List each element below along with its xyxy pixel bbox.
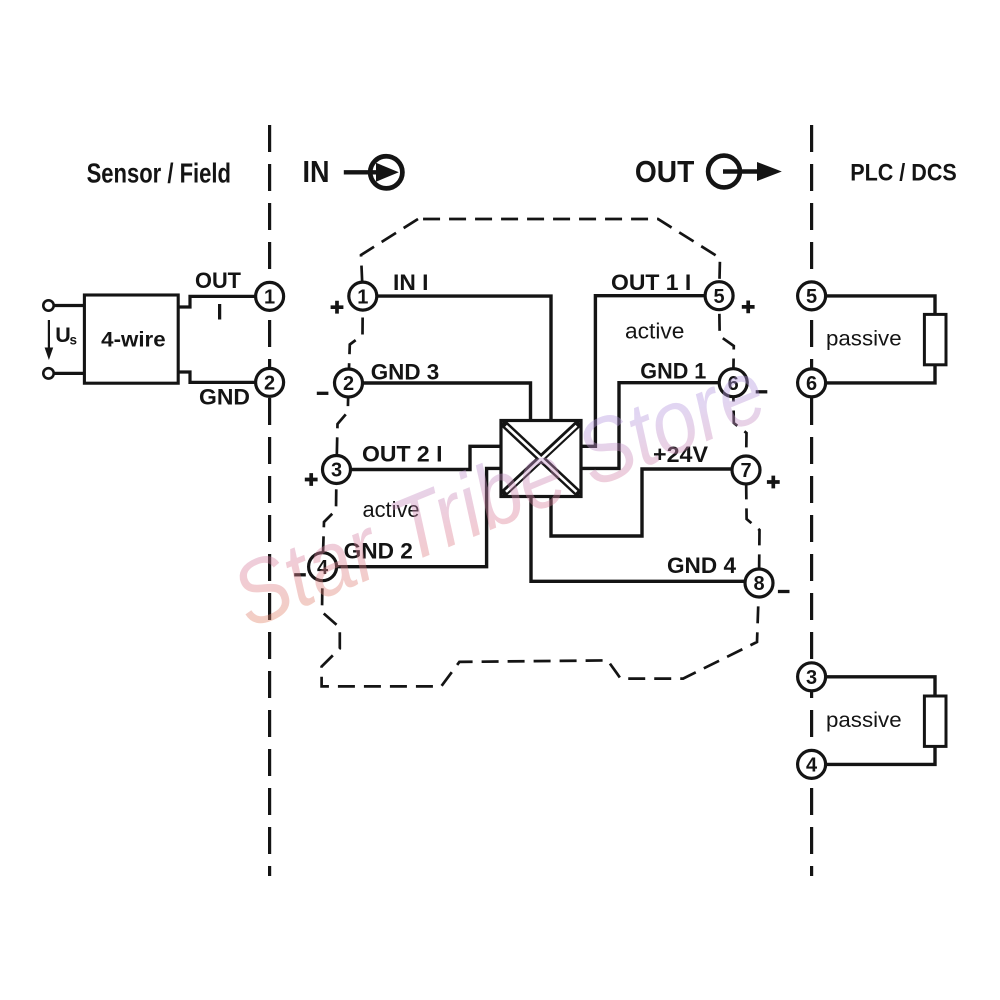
svg-text:GND 3: GND 3 (371, 360, 440, 385)
icon IN arrow-into-circle (344, 156, 403, 188)
svg-text:2: 2 (343, 373, 354, 395)
wire GND 1 : isolator right to terminal 6 (579, 383, 719, 469)
terminal 6 (device) (719, 369, 747, 397)
svg-text:1: 1 (264, 287, 275, 309)
svg-text:IN I: IN I (393, 270, 429, 295)
wire supply lower (54, 372, 84, 375)
wire 4-wire OUT to terminal 1 (178, 296, 256, 307)
svg-text:4-wire: 4-wire (101, 328, 165, 352)
svg-text:passive: passive (826, 327, 902, 351)
svg-text:OUT 2 I: OUT 2 I (362, 442, 443, 467)
svg-text:5: 5 (714, 286, 725, 308)
svg-text:I: I (217, 300, 223, 325)
sensor supply terminal lower (open circle) (43, 368, 53, 378)
wire PLC loop 6 bottom (826, 365, 935, 383)
terminal 5 (PLC) (798, 282, 826, 310)
svg-text:active: active (625, 319, 684, 344)
svg-text:U: U (55, 323, 71, 347)
polarity - terminal 4 (294, 573, 306, 576)
wire GND 2 : terminal 4 to isolator left (337, 468, 503, 566)
wire IN I : terminal 1 to isolator top (377, 296, 551, 422)
terminal 4 (device) (309, 553, 337, 581)
Us voltage arrow (48, 320, 50, 350)
boundary line Sensor/Field (left dashed) (268, 125, 271, 876)
svg-text:s: s (70, 333, 78, 348)
wire OUT 2 I : terminal 3 to isolator left (351, 446, 504, 469)
icon OUT arrow-out-of-circle (708, 156, 758, 188)
terminal 4 (PLC) (798, 750, 826, 778)
terminal 3 (device) (323, 456, 351, 484)
svg-text:OUT 1 I: OUT 1 I (611, 270, 691, 295)
svg-text:GND: GND (199, 385, 250, 410)
wire GND 3 : terminal 2 to isolator top (363, 383, 531, 422)
terminal 7 (device) (732, 456, 760, 484)
svg-text:OUT: OUT (635, 155, 695, 189)
resistor load R1 (passive upper) (924, 314, 946, 364)
svg-text:8: 8 (753, 573, 764, 595)
polarity + terminal 7 (767, 476, 780, 489)
terminal 1 (device) (349, 282, 377, 310)
terminal 2 (device) (335, 369, 363, 397)
polarity - terminal 6 (756, 390, 768, 393)
device dashed outline (322, 219, 760, 686)
polarity + terminal 1 (331, 301, 344, 314)
polarity + terminal 5 (742, 301, 755, 314)
terminal 3 (PLC) (798, 663, 826, 691)
wire PLC loop 3 top (826, 677, 935, 696)
wire PLC loop 4 bottom (826, 746, 935, 764)
terminal 1 (field boundary) (256, 282, 284, 310)
svg-text:4: 4 (806, 755, 818, 777)
wire +24V : isolator bottom to terminal 7 (551, 469, 732, 536)
resistor load R2 (passive lower) (924, 696, 946, 746)
wire PLC loop 5 top (826, 296, 935, 315)
svg-text:5: 5 (806, 286, 817, 308)
svg-text:6: 6 (806, 373, 817, 395)
svg-text:IN: IN (303, 155, 330, 189)
polarity - terminal 2 (317, 392, 329, 395)
svg-text:3: 3 (806, 667, 817, 689)
wire OUT 1 I : isolator right to terminal 5 (579, 296, 705, 447)
wire GND 4 : isolator bottom to terminal 8 (531, 495, 745, 581)
boundary line PLC/DCS (right dashed) (810, 125, 813, 876)
polarity - terminal 8 (778, 590, 790, 593)
svg-text:PLC / DCS: PLC / DCS (850, 159, 957, 186)
svg-text:1: 1 (357, 286, 368, 308)
svg-text:7: 7 (740, 460, 751, 482)
polarity + terminal 3 (305, 473, 318, 486)
svg-text:2: 2 (264, 373, 275, 395)
terminal 8 (device) (745, 569, 773, 597)
svg-text:GND 4: GND 4 (667, 553, 736, 578)
terminal 6 (PLC) (798, 369, 826, 397)
sensor supply terminal upper (open circle) (43, 300, 53, 310)
svg-text:OUT: OUT (195, 268, 241, 293)
wire supply upper (54, 304, 85, 307)
svg-text:3: 3 (331, 460, 342, 482)
svg-text:passive: passive (826, 708, 902, 732)
transmitter 4-wire box (84, 295, 178, 383)
terminal 5 (device) (705, 282, 733, 310)
wire 4-wire GND to terminal 2 (178, 372, 256, 382)
isolator U1 (square with double X) (501, 421, 581, 497)
svg-text:Sensor / Field: Sensor / Field (87, 158, 231, 189)
terminal 2 (field boundary) (256, 368, 284, 396)
